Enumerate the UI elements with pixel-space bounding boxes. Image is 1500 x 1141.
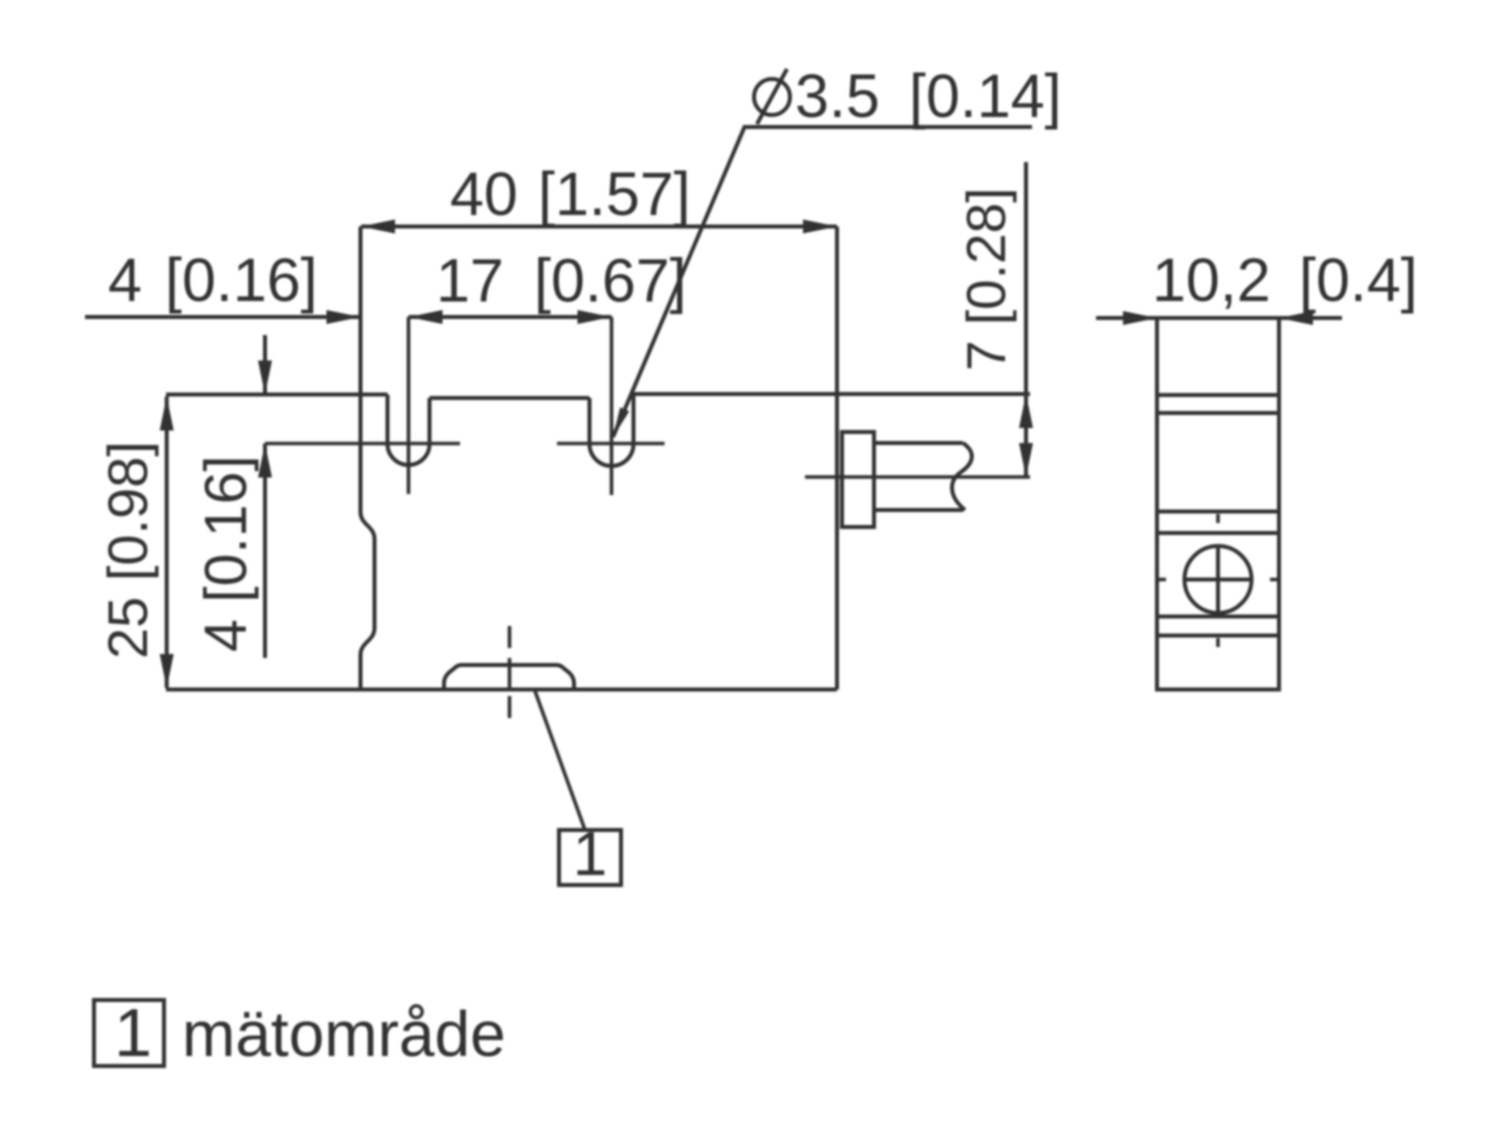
svg-text:4 [0.16]: 4 [0.16]: [193, 455, 259, 652]
svg-text:[0.67]: [0.67]: [534, 247, 687, 315]
svg-text:3.5: 3.5: [795, 62, 880, 130]
svg-text:10,2: 10,2: [1152, 246, 1271, 314]
svg-text:17: 17: [436, 247, 504, 315]
svg-text:[0.4]: [0.4]: [1299, 246, 1418, 314]
svg-text:[0.16]: [0.16]: [165, 246, 318, 314]
svg-text:[0.14]: [0.14]: [909, 62, 1062, 130]
svg-text:1: 1: [573, 820, 607, 889]
svg-text:4: 4: [108, 246, 142, 314]
svg-text:[1.57]: [1.57]: [538, 160, 691, 228]
svg-text:mätområde: mätområde: [182, 998, 506, 1070]
svg-text:7 [0.28]: 7 [0.28]: [955, 188, 1017, 371]
svg-text:1: 1: [114, 995, 152, 1071]
svg-text:25 [0.98]: 25 [0.98]: [96, 441, 159, 659]
svg-text:40: 40: [450, 160, 518, 228]
